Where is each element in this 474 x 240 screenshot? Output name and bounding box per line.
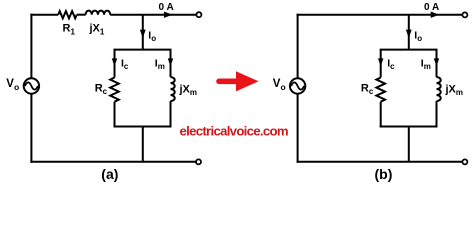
svg-text:(b): (b)	[375, 166, 393, 182]
wire: circuit b, bottom rail	[297, 161, 463, 163]
wire: circuit b, right shunt branch upper (Im)	[436, 50, 438, 78]
wire: circuit b, left vertical top segment	[297, 14, 299, 79]
current arrow Ic (circuit a)	[112, 58, 117, 66]
wire: circuit a, right shunt branch lower	[170, 101, 172, 127]
current arrow 0 A (circuit b, on top rail)	[431, 12, 440, 18]
source Vo (circuit a): sine wave	[25, 82, 38, 89]
source Vo (circuit b): AC source circle	[290, 78, 305, 93]
wire: circuit b, shunt top bar	[380, 49, 438, 51]
wire: circuit a, left shunt branch upper (Ic)	[114, 50, 116, 78]
wire: circuit b, left shunt branch lower	[380, 102, 382, 128]
svg-text:(a): (a)	[101, 166, 118, 182]
wire: circuit a, vertical from shunt bottom bar to bottom rail	[142, 127, 144, 162]
current arrow Ic (circuit b)	[378, 58, 383, 66]
current arrow 0 A (circuit a, on top rail)	[164, 12, 173, 18]
inductor jXm (vertical coil, circuit a, 4 bumps)	[171, 77, 175, 101]
terminal: circuit b bottom right open circle	[462, 159, 467, 164]
resistor R1 (horizontal zigzag)	[58, 11, 76, 18]
svg-text:0 A: 0 A	[159, 2, 174, 13]
wire: circuit a, bottom rail	[30, 161, 196, 163]
wire: circuit a, top rail left of R1	[30, 14, 58, 16]
wire: circuit a, right shunt branch upper (Im)	[170, 50, 172, 78]
current arrow Im (circuit b)	[434, 58, 439, 66]
resistor Rc (vertical zigzag, circuit b)	[376, 78, 385, 102]
current arrow Io (circuit b)	[406, 30, 412, 38]
terminal: circuit a top right open circle	[196, 12, 201, 17]
wire: between R1 and jX1	[77, 14, 86, 16]
wire: circuit b, left vertical bottom segment	[297, 94, 299, 163]
wire: circuit a, left shunt branch lower	[114, 102, 116, 128]
wire: circuit a, top rail right of jX1 to terminal	[110, 14, 196, 16]
wire: circuit a, left vertical bottom segment	[30, 94, 32, 163]
wire: circuit b, right shunt branch lower	[436, 101, 438, 127]
inductor jX1 (horizontal coil, 4 bumps)	[86, 11, 111, 15]
svg-text:0 A: 0 A	[424, 2, 439, 13]
red transformation arrow between circuits	[219, 71, 259, 91]
svg-text:electricalvoice.com: electricalvoice.com	[180, 123, 288, 138]
current arrow Im (circuit a)	[168, 58, 173, 66]
terminal: circuit b top right open circle	[462, 12, 467, 17]
wire: circuit a, shunt bottom bar	[114, 126, 172, 128]
wire: circuit b, vertical from shunt bottom bar to bottom rail	[408, 127, 410, 162]
terminal: circuit a bottom right open circle	[196, 159, 201, 164]
wire: circuit a, left vertical top segment	[30, 14, 32, 79]
source Vo (circuit a): AC source circle	[24, 78, 39, 93]
resistor Rc (vertical zigzag, circuit a)	[110, 78, 119, 102]
wire: circuit b, shunt bottom bar	[380, 126, 438, 128]
wire: circuit b, vertical from top junction to shunt top bar	[408, 15, 410, 50]
inductor jXm (vertical coil, circuit b, 4 bumps)	[437, 77, 441, 101]
wire: circuit b, left shunt branch upper (Ic)	[380, 50, 382, 78]
source Vo (circuit b): sine wave	[291, 82, 304, 89]
current arrow Io (circuit a)	[140, 30, 146, 38]
wire: circuit a, vertical from top junction to shunt top bar	[142, 15, 144, 50]
wire: circuit a, shunt top bar	[114, 49, 172, 51]
wire: circuit b, top rail	[297, 14, 463, 16]
